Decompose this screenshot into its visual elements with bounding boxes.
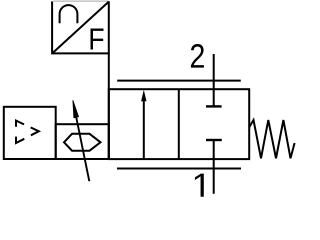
pneumatic amplifier box xyxy=(4,107,56,159)
port 2 stem xyxy=(213,54,215,106)
port 1 stem xyxy=(213,140,215,194)
arch (flux symbol) inside converter xyxy=(60,5,78,23)
port label 1 xyxy=(195,174,204,197)
lower mounting line xyxy=(117,168,241,170)
upper mounting line xyxy=(117,80,241,82)
flow arrow in left valve cell xyxy=(141,90,146,159)
label F xyxy=(91,28,104,49)
closed port T (bottom) bar xyxy=(206,139,222,141)
throttle box xyxy=(56,124,109,159)
hexagon (flow restrictor) xyxy=(64,134,101,151)
pilot converter U1 (box with diagonal and F) xyxy=(52,1,109,53)
closed port T (top) xyxy=(206,105,222,107)
pilot line / valve left edge xyxy=(108,53,110,159)
valve cell divider xyxy=(178,89,180,159)
dashed triangle (pneumatic signal) xyxy=(16,121,39,143)
diagonal of converter box xyxy=(53,2,109,53)
return spring xyxy=(249,120,295,158)
port label 2 xyxy=(191,44,204,68)
adjustment arrow xyxy=(73,100,89,181)
valve body (2/2-way valve) xyxy=(109,89,249,159)
